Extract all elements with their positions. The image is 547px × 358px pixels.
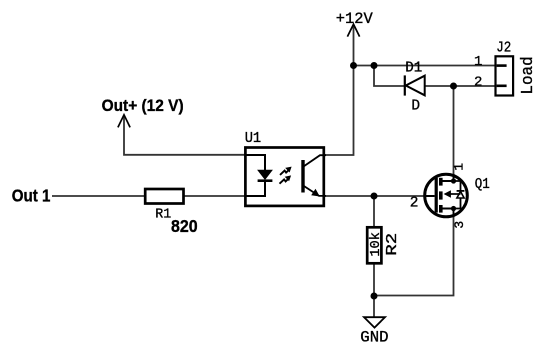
ground <box>360 317 388 346</box>
power symbol +12V <box>336 10 374 37</box>
optocoupler U1 <box>245 131 324 206</box>
junction dot at drain / D1 / J2 pin 2 <box>450 83 457 90</box>
gate pin line <box>425 195 435 197</box>
svg-text:3: 3 <box>452 221 467 229</box>
ground triangle <box>364 317 385 327</box>
svg-text:1: 1 <box>451 163 466 171</box>
wire D1 line to Q1 drain <box>453 86 455 175</box>
drain pin <box>441 174 454 181</box>
wire D1 anode to J2 pin 2 <box>424 85 495 87</box>
wire Q1 source to GND rail <box>374 217 454 296</box>
svg-text:Out+ (12 V): Out+ (12 V) <box>102 96 184 115</box>
U1 LED <box>246 155 272 196</box>
svg-text:2: 2 <box>474 74 482 90</box>
wire R2 bottom to GND junction <box>373 264 375 296</box>
svg-text:Out 1: Out 1 <box>12 186 51 206</box>
junction dot at gate / R2 <box>371 193 378 200</box>
svg-text:GND: GND <box>360 329 388 347</box>
diode D1 <box>405 60 425 114</box>
R1 body <box>145 189 183 204</box>
svg-text:+12V: +12V <box>336 10 374 28</box>
wire stub junction to D1 cathode <box>374 66 404 87</box>
svg-text:820: 820 <box>171 216 198 236</box>
U1 light arrow lower <box>280 175 292 183</box>
D1 cathode bar <box>404 75 406 95</box>
svg-text:R1: R1 <box>155 207 171 223</box>
body diode <box>457 191 464 198</box>
svg-text:Load: Load <box>519 56 538 94</box>
U1 box <box>245 148 323 206</box>
wire U1 emitter to Q1 gate <box>324 195 428 197</box>
wire Out 1 to R1 <box>52 195 145 197</box>
gate bar <box>435 178 438 213</box>
pin stub 2 <box>497 85 507 88</box>
U1 light arrow upper <box>280 167 292 175</box>
Out+ arrow <box>118 115 130 128</box>
wire GND junction to ground symbol <box>373 296 375 317</box>
pin stub 1 <box>497 64 507 67</box>
wire Out+ arrow to U1 anode <box>124 115 245 155</box>
R2 body <box>367 227 381 263</box>
resistor R2 <box>367 227 401 263</box>
svg-text:10k: 10k <box>368 232 384 257</box>
channel segment middle <box>439 191 443 199</box>
wire gate junction to R2 top <box>373 196 375 227</box>
channel segment bottom <box>439 205 443 213</box>
wire R1 to U1 cathode <box>184 195 245 197</box>
wire +12V rail to J2 pin 1 <box>354 65 496 67</box>
+12V arrow <box>347 24 359 36</box>
D1 triangle <box>406 76 425 96</box>
internal dot drain <box>451 178 456 183</box>
svg-text:1: 1 <box>474 54 482 70</box>
junction dot at GND rail <box>371 293 378 300</box>
transistor Q1 MOSFET <box>410 163 490 229</box>
power symbol Out+ (12 V) <box>102 96 184 127</box>
J2 box <box>496 56 514 95</box>
wire U1 collector to +12V column <box>324 25 354 156</box>
svg-text:R2: R2 <box>384 233 401 256</box>
resistor R1 <box>145 189 197 236</box>
internal dot source <box>451 206 456 211</box>
svg-text:D: D <box>411 99 420 115</box>
bulk arrow <box>447 193 461 195</box>
svg-text:D1: D1 <box>405 60 422 76</box>
svg-text:Q1: Q1 <box>475 177 490 193</box>
svg-text:J2: J2 <box>496 40 511 56</box>
Q1 body circle <box>425 174 468 217</box>
junction dot at D1 branch <box>371 62 378 69</box>
channel segment top <box>439 178 443 186</box>
junction dot at +12V rail <box>350 62 357 69</box>
body diode branch <box>454 181 461 209</box>
svg-text:U1: U1 <box>245 131 262 147</box>
connector J2 <box>474 40 538 95</box>
svg-text:2: 2 <box>410 196 419 212</box>
source pin <box>441 209 454 218</box>
U1 phototransistor <box>303 155 326 196</box>
